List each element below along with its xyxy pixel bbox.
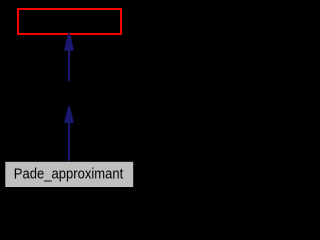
svg-text:Pade_approximant: Pade_approximant bbox=[14, 167, 124, 183]
wire: upper inheritance edge shaft bbox=[68, 50, 70, 82]
node: upper inheritance arrowhead bbox=[64, 33, 74, 50]
node: truncated base-class box (red, empty) bbox=[18, 9, 121, 34]
node: Pade_approximant class box bbox=[5, 161, 134, 187]
node: lower inheritance arrowhead bbox=[64, 106, 74, 123]
wire: lower inheritance edge shaft bbox=[68, 122, 70, 161]
